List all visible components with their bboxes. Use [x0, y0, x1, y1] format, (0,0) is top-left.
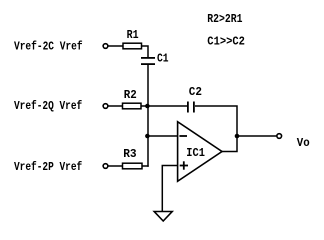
wire op-amp output up to feedback [222, 136, 237, 152]
svg-text:Vref-2Q Vref: Vref-2Q Vref [14, 99, 82, 113]
terminal node Vref-2C [103, 44, 108, 49]
terminal node Vo [277, 134, 282, 139]
junction node output [235, 134, 240, 139]
svg-text:IC1: IC1 [186, 146, 205, 160]
wire R3 to bus bottom [142, 165, 149, 167]
terminal node Vref-2P [103, 164, 108, 169]
wire terminal2 to R2 [108, 105, 122, 107]
wire C2 to output vertical [195, 106, 237, 136]
wire terminal3 to R3 [108, 165, 122, 167]
svg-text:Vref-2P Vref: Vref-2P Vref [14, 160, 82, 174]
svg-text:C1>>C2: C1>>C2 [207, 35, 245, 49]
svg-text:R3: R3 [123, 147, 136, 161]
terminal node Vref-2Q [103, 104, 108, 109]
svg-text:C1: C1 [157, 52, 169, 66]
wire node to C2 [148, 105, 188, 107]
wire terminal1 to R1 [108, 45, 123, 47]
capacitor C1 [141, 52, 169, 66]
junction node inverting input [145, 134, 150, 139]
capacitor C2 [188, 85, 202, 113]
wire output to terminal [237, 135, 276, 137]
wire R2 to node [141, 105, 148, 107]
svg-text:R2: R2 [124, 88, 137, 102]
ground [154, 212, 172, 222]
wire node to op-amp minus input [148, 135, 178, 137]
op-amp IC1 [178, 122, 222, 182]
resistor R1 [123, 28, 142, 49]
svg-text:Vo: Vo [297, 136, 310, 150]
svg-text:R1: R1 [127, 28, 139, 42]
svg-text:C2: C2 [189, 85, 202, 99]
resistor R3 [123, 147, 143, 169]
wire C1 down main vertical bus [147, 65, 149, 167]
wire R1 to C1 [142, 46, 149, 57]
svg-text:R2>2R1: R2>2R1 [207, 12, 242, 26]
wire op-amp plus input to ground [162, 166, 178, 212]
svg-text:Vref-2C Vref: Vref-2C Vref [14, 40, 83, 54]
junction node R2/C1 bus [145, 104, 150, 109]
resistor R2 [123, 88, 142, 109]
